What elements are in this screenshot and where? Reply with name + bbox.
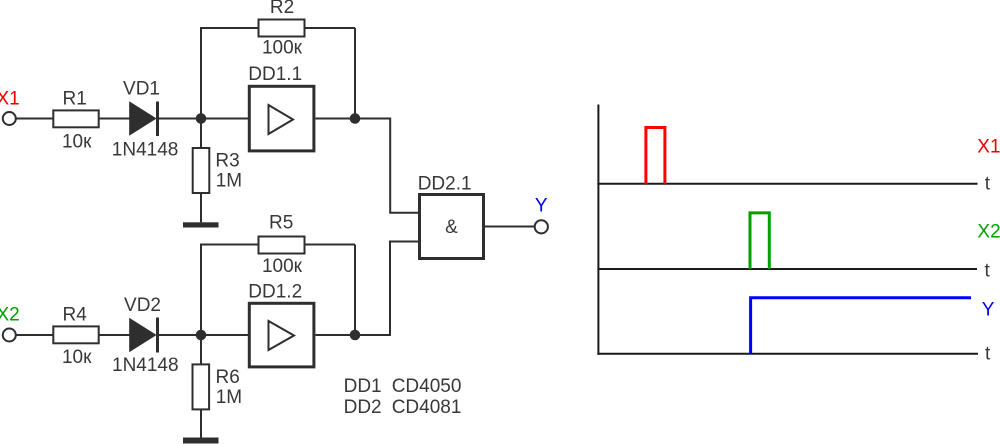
wire R3 to ground (200, 193, 202, 222)
wire feedback top left stage2 (200, 244, 258, 246)
svg-text:1N4148: 1N4148 (112, 355, 179, 376)
svg-text:1M: 1M (216, 387, 242, 408)
svg-text:t: t (985, 260, 991, 281)
timing axis X2 baseline (597, 268, 977, 270)
terminal X2 (3, 329, 16, 342)
ground stage1 (183, 222, 219, 227)
and-gate DD2.1 (420, 195, 484, 259)
timing axis X1 baseline (597, 183, 977, 185)
svg-text:X1: X1 (0, 89, 20, 110)
wire VD2 to DD1.2 input (159, 334, 248, 336)
svg-text:R4: R4 (63, 304, 88, 325)
wire DD1.1 output (316, 119, 419, 213)
svg-text:100к: 100к (262, 256, 303, 277)
svg-text:R1: R1 (63, 88, 87, 109)
resistor R3 (193, 148, 210, 193)
svg-text:DD1.2: DD1.2 (248, 282, 302, 303)
svg-text:X2: X2 (0, 305, 20, 326)
terminal X1 (3, 112, 16, 125)
svg-text:X2: X2 (977, 222, 1000, 243)
junction node stage1 output (350, 113, 361, 124)
svg-text:10к: 10к (62, 132, 92, 153)
wire gate output (485, 226, 535, 228)
junction node stage2 output (350, 330, 361, 341)
svg-text:Y: Y (982, 300, 995, 321)
ground stage2 (183, 438, 219, 444)
svg-text:R5: R5 (269, 213, 293, 234)
wire feedback right vertical stage2 (354, 245, 356, 336)
junction node stage1 input (196, 113, 207, 124)
waveform Y step (751, 298, 971, 354)
svg-text:VD2: VD2 (124, 295, 161, 316)
diode VD2 (129, 318, 159, 353)
svg-text:DD1.1: DD1.1 (248, 64, 302, 85)
svg-text:CD4081: CD4081 (392, 397, 462, 418)
timing axis vertical (597, 105, 599, 355)
wire feedback left vertical stage1 (200, 28, 202, 119)
wire VD1 to DD1.1 input (159, 118, 248, 120)
wire X1 to R1 (16, 118, 53, 120)
buffer DD1.2 (249, 303, 314, 367)
wire feedback right vertical stage1 (354, 28, 356, 119)
waveform X1 pulse (646, 128, 665, 184)
resistor R1 (53, 110, 98, 127)
svg-text:&: & (445, 217, 458, 238)
svg-text:R6: R6 (216, 367, 240, 388)
svg-text:1M: 1M (216, 171, 242, 192)
waveform X2 pulse (750, 213, 769, 269)
resistor R2 (259, 20, 305, 37)
resistor R4 (53, 326, 98, 343)
svg-text:DD2: DD2 (344, 397, 382, 418)
diode VD1 (129, 101, 159, 136)
wire feedback top right stage1 (305, 27, 356, 29)
wire R4 to VD2 (100, 334, 131, 336)
terminal Y (535, 220, 548, 233)
wire feedback top left stage1 (200, 27, 258, 29)
svg-text:1N4148: 1N4148 (112, 140, 179, 161)
svg-text:R2: R2 (270, 0, 294, 18)
wire R6 top (200, 335, 202, 364)
svg-text:10к: 10к (62, 347, 92, 368)
svg-text:Y: Y (535, 195, 548, 216)
wire DD1.2 output (316, 242, 419, 336)
svg-text:CD4050: CD4050 (392, 376, 462, 397)
resistor R5 (259, 237, 305, 254)
wire R1 to VD1 (100, 118, 131, 120)
svg-text:t: t (985, 173, 991, 194)
svg-text:VD1: VD1 (123, 79, 160, 100)
svg-text:DD2.1: DD2.1 (418, 174, 472, 195)
timing axis Y baseline (597, 353, 978, 355)
svg-text:100к: 100к (262, 38, 303, 59)
wire R6 to ground (200, 409, 202, 437)
resistor R6 (193, 364, 210, 409)
wire feedback left vertical stage2 (200, 245, 202, 336)
svg-text:t: t (985, 344, 991, 365)
svg-text:X1: X1 (977, 136, 1000, 157)
wire R3 top (200, 119, 202, 148)
wire feedback top right stage2 (305, 244, 356, 246)
svg-text:R3: R3 (215, 150, 239, 171)
buffer DD1.1 (249, 86, 314, 151)
junction node stage2 input (196, 330, 207, 341)
wire X2 to R4 (16, 334, 53, 336)
svg-text:DD1: DD1 (344, 376, 382, 397)
